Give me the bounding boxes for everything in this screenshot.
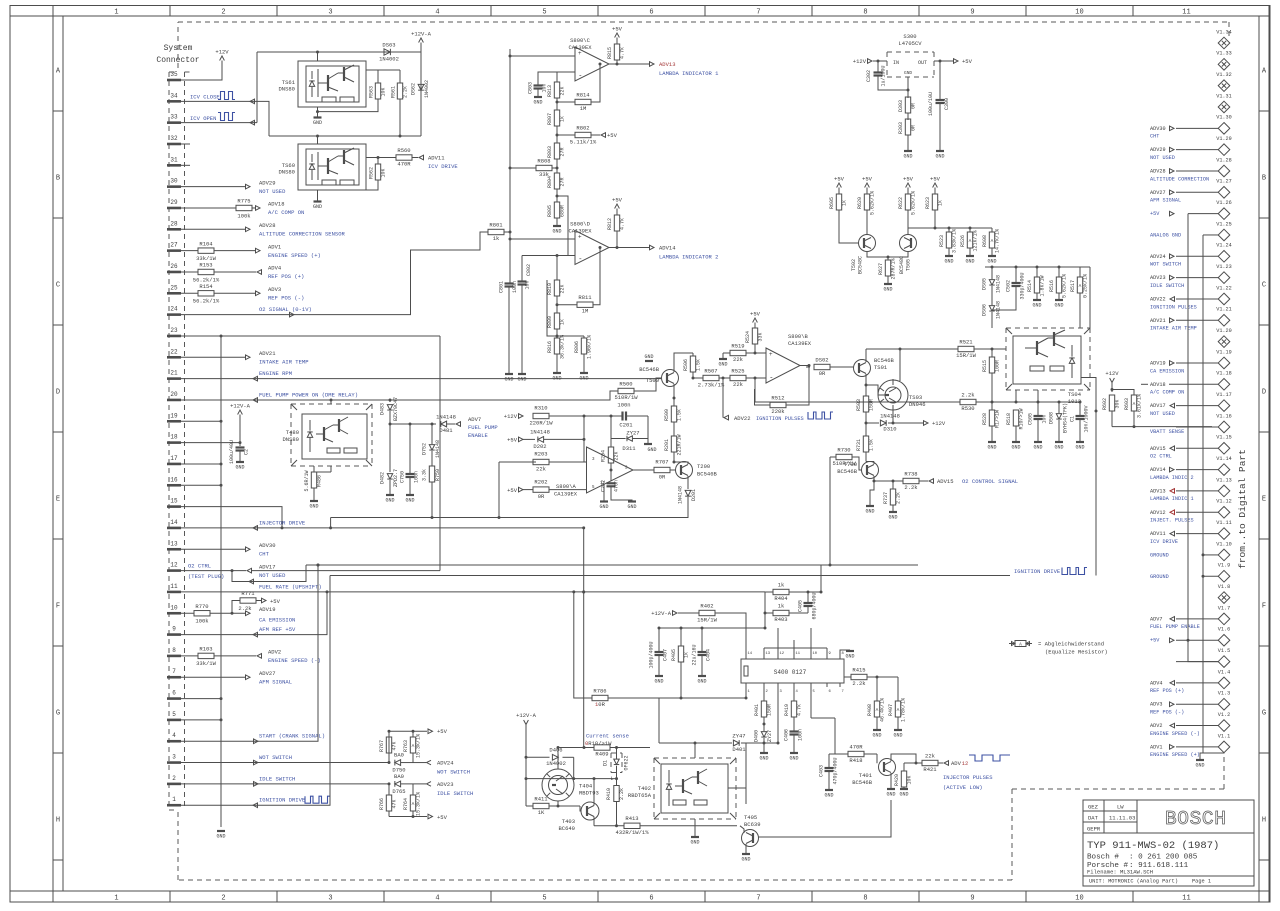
svg-text:OF622: OF622 — [624, 755, 630, 770]
wire TS6x supply riser — [256, 52, 258, 123]
svg-text:ADV24: ADV24 — [1150, 254, 1166, 260]
svg-text:31: 31 — [170, 156, 178, 163]
ground — [722, 353, 724, 358]
svg-text:5.11k/1%: 5.11k/1% — [570, 139, 597, 146]
svg-text:WOT SWITCH: WOT SWITCH — [1150, 262, 1181, 268]
svg-text:+12V: +12V — [215, 49, 229, 56]
svg-text:OUT: OUT — [918, 60, 927, 66]
svg-text:GROUND: GROUND — [1150, 574, 1169, 580]
svg-text:R807: R807 — [547, 113, 553, 125]
svg-text:DS06: DS06 — [982, 304, 988, 316]
svg-text:GND: GND — [883, 287, 892, 293]
svg-text:24: 24 — [170, 306, 178, 313]
svg-text:22u/16U: 22u/16U — [692, 644, 698, 665]
ground — [310, 500, 318, 502]
svg-text:ENGINE SPEED (+): ENGINE SPEED (+) — [1150, 752, 1200, 758]
wire comparator reference bus — [509, 49, 511, 283]
svg-text:IDLE SWITCH: IDLE SWITCH — [259, 775, 295, 782]
transistor T200 BC546B — [676, 462, 693, 479]
svg-text:5: 5 — [542, 9, 546, 17]
svg-text:E: E — [56, 496, 60, 504]
svg-text:7: 7 — [756, 895, 760, 903]
transistor T730 BC546B — [862, 462, 879, 479]
ground — [1076, 441, 1084, 443]
svg-text:2.2k: 2.2k — [619, 788, 625, 800]
wire pin1 ignition drive — [181, 576, 330, 806]
svg-text:2.2k: 2.2k — [961, 391, 975, 398]
svg-text:E: E — [1262, 496, 1266, 504]
svg-text:ADV3: ADV3 — [1150, 702, 1162, 708]
svg-text:680R: 680R — [560, 205, 566, 217]
svg-text:16: 16 — [170, 476, 178, 483]
power terminal +12V — [220, 56, 225, 61]
svg-text:(Equalize Resistor): (Equalize Resistor) — [1045, 649, 1108, 656]
wire idle divider bottom — [389, 816, 413, 818]
wire injector power drop — [583, 528, 585, 748]
wire D406 to base row — [573, 757, 575, 778]
svg-text:A: A — [1019, 642, 1022, 648]
label ADV7 FUEL PUMP ENABLE — [456, 422, 461, 427]
svg-text:R204: R204 — [601, 450, 607, 462]
svg-text:2.2k: 2.2k — [904, 484, 918, 491]
svg-text:D765: D765 — [392, 788, 405, 795]
svg-text:ADV23: ADV23 — [1150, 275, 1166, 281]
svg-text:ZY27: ZY27 — [626, 429, 639, 436]
wire T403 base — [580, 806, 582, 811]
svg-text:GND: GND — [718, 362, 727, 368]
resistor R623 1k — [934, 188, 936, 195]
svg-text:DNS80: DNS80 — [278, 86, 295, 93]
svg-text:V1.29: V1.29 — [1216, 136, 1232, 142]
wire T500 emitter — [673, 384, 675, 398]
svg-text:AFM REF +5V: AFM REF +5V — [259, 626, 296, 633]
svg-text:V1.21: V1.21 — [1216, 307, 1232, 313]
svg-text:DNS80: DNS80 — [282, 436, 299, 443]
svg-text:100u/10U: 100u/10U — [928, 92, 934, 116]
svg-text:+5V: +5V — [507, 487, 518, 494]
diode D508 BYHS4(TFK) — [1058, 402, 1060, 413]
svg-text:D201: D201 — [691, 489, 697, 501]
svg-text:ENGINE SPEED (-): ENGINE SPEED (-) — [268, 657, 321, 664]
wire pin23 — [181, 335, 440, 337]
capacitor C404 22u/16U — [701, 628, 703, 652]
svg-text:LAMBDA INDICATOR 1: LAMBDA INDICATOR 1 — [659, 70, 719, 77]
svg-text:GND: GND — [313, 204, 322, 210]
svg-text:NOT USED: NOT USED — [1150, 411, 1175, 417]
ground — [760, 752, 768, 754]
wire to ADV23 — [413, 783, 426, 785]
svg-text:DNS80: DNS80 — [278, 169, 295, 176]
svg-text:O2 SIGNAL (0-1V): O2 SIGNAL (0-1V) — [259, 306, 312, 313]
svg-text:0R: 0R — [659, 473, 666, 480]
svg-text:D311: D311 — [622, 445, 636, 452]
svg-text:C502: C502 — [1006, 280, 1012, 292]
svg-text:L4705CV: L4705CV — [898, 40, 922, 47]
svg-text:H: H — [1262, 817, 1266, 825]
svg-text:R10/>1W: R10/>1W — [1019, 408, 1025, 429]
resistor R404 1k — [765, 591, 773, 593]
svg-text:C: C — [1262, 282, 1266, 290]
power terminal +12V-A — [238, 410, 243, 415]
wire pin34 — [181, 101, 269, 136]
svg-text:R623: R623 — [925, 197, 931, 209]
wire pin8 — [181, 655, 198, 657]
svg-text:ADV13: ADV13 — [659, 61, 676, 68]
svg-text:+: + — [769, 351, 773, 358]
wire T403 emitter — [593, 817, 595, 826]
svg-text:ADV11: ADV11 — [428, 155, 445, 162]
svg-text:0R: 0R — [538, 493, 545, 500]
svg-text:GND: GND — [789, 756, 798, 762]
svg-text:R810: R810 — [547, 283, 553, 295]
svg-text:GND: GND — [627, 504, 636, 510]
svg-text:1k: 1k — [938, 200, 944, 206]
svg-text:15: 15 — [170, 498, 178, 505]
svg-text:27R: 27R — [560, 147, 566, 156]
svg-text:CA EMISSION: CA EMISSION — [1150, 368, 1184, 374]
svg-text:1k: 1k — [560, 116, 566, 122]
svg-text:9: 9 — [970, 895, 974, 903]
svg-text:R530: R530 — [961, 405, 974, 412]
svg-text:T401: T401 — [859, 772, 873, 779]
wire A/C COMP ON stub — [1141, 383, 1148, 385]
capacitor C801 100n — [509, 282, 510, 284]
capacitor C202 470n — [607, 482, 616, 484]
svg-text:8: 8 — [863, 895, 867, 903]
svg-text:+5V: +5V — [834, 176, 845, 183]
svg-text:CHT: CHT — [259, 550, 270, 557]
wire from S400 pin5 — [811, 717, 835, 719]
resistor R737 2.2k — [892, 481, 894, 489]
svg-text:NOT USED: NOT USED — [259, 188, 286, 195]
svg-text:ADV29: ADV29 — [1150, 147, 1166, 153]
resistor R560 470R — [396, 155, 412, 160]
svg-text:R421: R421 — [923, 766, 937, 773]
diode D752 1N4148 — [431, 424, 433, 444]
wire pin21 engine rpm — [181, 378, 661, 380]
connector V1.4 — [1150, 669, 1230, 694]
resistor R402 15R/1W — [678, 612, 699, 614]
wire pin20 fuel pump power — [181, 391, 618, 400]
ground — [988, 255, 996, 257]
wire T402 right side — [728, 787, 746, 789]
wire T404 collector to current sense — [557, 748, 559, 770]
svg-text:GND: GND — [517, 377, 526, 383]
svg-text:1k: 1k — [493, 235, 500, 242]
svg-text:470R: 470R — [849, 743, 863, 750]
wire comparator1 output — [609, 63, 650, 65]
wire T401 collector — [891, 754, 916, 763]
svg-text:IDLE SWITCH: IDLE SWITCH — [437, 790, 473, 797]
svg-text:V1.34: V1.34 — [1216, 29, 1232, 35]
svg-text:10: 10 — [1075, 9, 1083, 17]
svg-text:GND: GND — [944, 259, 953, 265]
svg-text:+12V: +12V — [853, 58, 867, 65]
connector V1.8 — [1218, 584, 1230, 603]
svg-text:R404: R404 — [774, 595, 788, 602]
svg-text:B: B — [56, 175, 60, 183]
svg-text:C201: C201 — [619, 422, 633, 429]
svg-text:R415: R415 — [852, 666, 865, 673]
svg-text:4.7k: 4.7k — [797, 704, 803, 716]
svg-text:121k/1%: 121k/1% — [973, 230, 979, 251]
resistor R803 27R — [554, 143, 559, 159]
svg-text:ADV: ADV — [951, 760, 962, 767]
svg-text:V1.4: V1.4 — [1218, 669, 1230, 675]
connector V1.28 — [1150, 157, 1232, 182]
resistor R506 1.5k — [674, 353, 693, 372]
svg-text:33k/1W: 33k/1W — [196, 660, 217, 667]
svg-text:0R: 0R — [911, 125, 917, 131]
svg-text:ADV30: ADV30 — [1150, 126, 1166, 132]
wire collector rail to dividers — [908, 227, 992, 229]
svg-text:S300: S300 — [903, 33, 916, 40]
diode D481 1N4148 — [441, 421, 447, 427]
svg-text:D482: D482 — [380, 472, 386, 484]
ground — [386, 494, 394, 496]
svg-text:1: 1 — [172, 796, 176, 803]
wire mid rail — [269, 135, 421, 137]
resistor R786 10R — [592, 695, 608, 700]
svg-text:R620: R620 — [857, 197, 863, 209]
diode D750 BA0 — [395, 760, 401, 766]
diode D406 1N4002 — [526, 756, 550, 758]
wire pin23 riser to ADV17 — [439, 336, 441, 571]
resistor R603 3.61k/1% — [1131, 395, 1136, 411]
svg-text:ADV13: ADV13 — [1150, 488, 1166, 494]
svg-text:1M: 1M — [580, 105, 587, 112]
wire pin12 — [181, 570, 246, 572]
resistor R562 10k — [366, 157, 396, 159]
svg-text:Current sense: Current sense — [586, 733, 629, 740]
svg-text:10: 10 — [813, 652, 818, 656]
svg-text:G: G — [56, 710, 60, 718]
connector V1.30 — [1150, 115, 1232, 140]
resistor R486 5.6R/1W — [313, 466, 315, 472]
capacitor C406 100n — [790, 730, 799, 732]
svg-text:R410: R410 — [606, 788, 612, 800]
resistor R521 15R/1W — [868, 348, 958, 350]
transistor T501 BC546B — [854, 360, 871, 377]
svg-text:29: 29 — [170, 199, 178, 206]
svg-text:R525: R525 — [731, 367, 744, 374]
svg-text:T402: T402 — [638, 785, 651, 792]
svg-text:A: A — [991, 238, 994, 244]
svg-text:D483: D483 — [380, 403, 386, 415]
svg-text:R203: R203 — [534, 451, 547, 458]
power terminal +12V-A — [419, 38, 424, 43]
svg-text:FUEL PUMP: FUEL PUMP — [468, 424, 498, 431]
svg-text:START (CRANK SIGNAL): START (CRANK SIGNAL) — [259, 733, 325, 740]
wire R500 to T500 base — [634, 378, 662, 391]
svg-text:R738: R738 — [904, 470, 917, 477]
svg-text:R806: R806 — [574, 341, 580, 353]
svg-text:ENGINE SPEED (+): ENGINE SPEED (+) — [268, 252, 321, 259]
svg-text:14: 14 — [170, 519, 178, 526]
svg-text:T403: T403 — [562, 818, 575, 825]
connector V1.16 — [1150, 413, 1232, 435]
svg-text:GND: GND — [1054, 303, 1063, 309]
svg-text:V1.19: V1.19 — [1216, 349, 1232, 355]
wire R602/R603 to VBATT SENSE — [1111, 411, 1113, 427]
capacitor C750 100n — [409, 424, 411, 474]
svg-text:DS05: DS05 — [982, 278, 988, 290]
svg-text:ADV19: ADV19 — [259, 606, 276, 613]
svg-text:-: - — [769, 375, 773, 383]
resistor R806 1.96k/1% — [583, 336, 585, 338]
svg-text:GND: GND — [1054, 445, 1063, 451]
svg-text:GND: GND — [935, 154, 944, 160]
wire T402 output — [694, 743, 696, 758]
svg-text:INTAKE AIR TEMP: INTAKE AIR TEMP — [1150, 326, 1197, 332]
svg-text:11.11.03: 11.11.03 — [1109, 815, 1135, 822]
svg-text:BC546B: BC546B — [852, 779, 873, 786]
svg-text:V1.23: V1.23 — [1216, 264, 1232, 270]
svg-text:R408: R408 — [867, 704, 873, 716]
svg-text:INTAKE AIR TEMP: INTAKE AIR TEMP — [259, 358, 309, 365]
svg-text:1k: 1k — [684, 652, 690, 658]
svg-text:56.2k/1%: 56.2k/1% — [193, 298, 220, 305]
svg-text:ADV22: ADV22 — [1150, 296, 1166, 302]
svg-text:3: 3 — [172, 754, 176, 761]
svg-text:220k: 220k — [771, 408, 785, 415]
svg-text:C202: C202 — [601, 480, 607, 492]
svg-text:5.6R/1W: 5.6R/1W — [304, 470, 310, 491]
svg-text:V1.3: V1.3 — [1218, 691, 1230, 697]
wire ADV22 tap — [722, 380, 724, 418]
svg-text:D310: D310 — [883, 426, 896, 433]
resistor R516 5.62k/1% — [1058, 267, 1060, 277]
resistor R805 680R — [554, 202, 559, 218]
wire +5V bus right — [1188, 214, 1218, 662]
svg-text:15R/1W: 15R/1W — [956, 352, 977, 359]
power terminal +5V — [753, 318, 758, 323]
connector V1.7 — [1150, 605, 1230, 630]
ground — [866, 505, 874, 507]
resistor R523 3.83k/1% — [948, 228, 950, 232]
svg-text:6: 6 — [649, 895, 653, 903]
svg-text:ADV14: ADV14 — [659, 245, 676, 252]
svg-text:470R: 470R — [397, 161, 411, 168]
svg-text:+5V: +5V — [962, 58, 973, 65]
svg-text:C505: C505 — [1028, 413, 1034, 425]
svg-text:Connector: Connector — [156, 56, 199, 65]
svg-text:14: 14 — [748, 652, 753, 656]
svg-text:11: 11 — [1182, 9, 1190, 17]
svg-text:33k: 33k — [758, 332, 764, 341]
label +12V — [924, 421, 929, 426]
resistor R807 1k — [554, 110, 559, 126]
hybrid transistor TS60 DNS80 — [298, 144, 366, 190]
svg-text:5.62k/1%: 5.62k/1% — [870, 191, 876, 215]
wire TS61 output rail — [318, 99, 379, 112]
ground — [887, 788, 895, 790]
svg-text:GND: GND — [965, 259, 974, 265]
wire comparator feedback R512 — [754, 378, 756, 402]
svg-text:23: 23 — [170, 327, 178, 334]
resistor R812 4.7k — [616, 209, 618, 216]
svg-text:CA139EX: CA139EX — [788, 340, 812, 347]
svg-text:R560: R560 — [397, 147, 410, 154]
svg-text:TS03: TS03 — [909, 394, 922, 401]
svg-text:ADV17: ADV17 — [259, 563, 276, 570]
wire emitters to R627 — [867, 252, 908, 258]
wire wot divider top — [389, 730, 427, 732]
connector V1.18 — [1150, 371, 1232, 396]
resistor R201 221R/1W — [671, 436, 676, 452]
svg-text:7: 7 — [172, 668, 176, 675]
wire pump block top — [330, 400, 332, 404]
svg-text:R516: R516 — [1049, 280, 1055, 292]
wire T501 emitter to TS03 — [865, 374, 867, 385]
svg-text:ADV30: ADV30 — [259, 542, 276, 549]
wire comparator output to T501 — [800, 365, 809, 367]
svg-text:V1.9: V1.9 — [1218, 563, 1230, 569]
wire TS03 collector riser — [899, 349, 901, 381]
svg-text:V1.11: V1.11 — [1216, 520, 1232, 526]
svg-text:1k: 1k — [778, 602, 785, 609]
ground — [790, 752, 798, 754]
wire to ADV24 — [413, 762, 426, 764]
svg-text:V1.28: V1.28 — [1216, 157, 1232, 163]
svg-text:R603: R603 — [1124, 398, 1130, 410]
svg-text:TS01: TS01 — [874, 364, 888, 371]
svg-text:5: 5 — [542, 895, 546, 903]
svg-text:1N4148: 1N4148 — [530, 429, 550, 436]
capacitor C802 10n — [521, 256, 523, 282]
svg-text:ADV23: ADV23 — [437, 781, 454, 788]
svg-text:GEPR: GEPR — [1087, 826, 1101, 833]
resistor R203 22k — [499, 461, 536, 463]
wire pin13 — [181, 548, 246, 550]
transistor T401 BC546B — [879, 759, 896, 776]
hybrid transistor T402 RBDT65A — [628, 758, 736, 819]
svg-text:470p/400U: 470p/400U — [833, 757, 839, 784]
wire T730 emitter — [873, 476, 875, 481]
wire pin25 — [181, 292, 198, 294]
wire pin11 — [181, 591, 765, 593]
svg-text:10k: 10k — [381, 168, 387, 177]
transistor T404 RBDT93 power — [542, 765, 599, 805]
connector V1.20 — [1216, 328, 1232, 347]
svg-text:35: 35 — [170, 71, 178, 78]
resistor R738 2.2k — [874, 480, 903, 482]
svg-text:GROUND: GROUND — [1150, 552, 1169, 558]
svg-text:+5V: +5V — [903, 176, 914, 183]
wire R605 to T502 base — [839, 210, 859, 243]
svg-text:-: - — [578, 256, 582, 264]
resistor R731 1.5k — [865, 423, 867, 436]
svg-text:100u/40U: 100u/40U — [229, 440, 235, 464]
ground — [217, 830, 225, 832]
svg-text:T480: T480 — [286, 429, 299, 436]
svg-text:A: A — [1079, 283, 1082, 289]
svg-text:GND: GND — [405, 498, 414, 504]
svg-text:V1.18: V1.18 — [1216, 371, 1232, 377]
svg-text:UNIT: MOTRONIC (Analog Part): UNIT: MOTRONIC (Analog Part) — [1089, 879, 1178, 885]
svg-text:22k: 22k — [733, 356, 744, 363]
svg-text:11: 11 — [1182, 895, 1190, 903]
svg-text:ADV15: ADV15 — [937, 478, 954, 485]
svg-text:27: 27 — [170, 242, 178, 249]
ground — [945, 255, 953, 257]
wire T401 base — [876, 754, 878, 763]
svg-text:RBDT65A: RBDT65A — [628, 792, 652, 799]
svg-text:R407: R407 — [888, 704, 894, 716]
capacitor C201 100n — [621, 412, 623, 421]
svg-text:V1.10: V1.10 — [1216, 541, 1232, 547]
svg-text:V1.30: V1.30 — [1216, 115, 1232, 121]
